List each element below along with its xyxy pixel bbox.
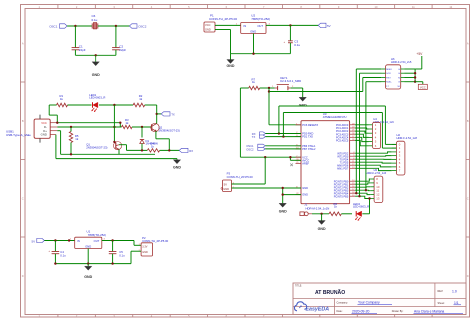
wire xyxy=(102,241,141,246)
wire PB bus to H3 xyxy=(355,179,370,199)
wire xyxy=(266,134,302,137)
node junction xyxy=(54,262,114,264)
svg-text:USB-Type-A_Male: USB-Type-A_Male xyxy=(6,133,31,137)
regulator U2 xyxy=(241,13,271,33)
svg-text:GND: GND xyxy=(302,193,308,197)
svg-text:CONN-TH_2P-P5.00: CONN-TH_2P-P5.00 xyxy=(227,175,254,179)
svg-text:OSC1: OSC1 xyxy=(49,24,58,28)
svg-text:Your Company: Your Company xyxy=(358,301,380,305)
wire xyxy=(157,113,162,115)
svg-text:D: D xyxy=(467,274,469,278)
svg-text:TX: TX xyxy=(252,135,256,139)
header H6 HDR-F-2.54_2x5 ISP xyxy=(381,57,412,89)
resistor R5 xyxy=(69,127,79,154)
capacitor C4 xyxy=(48,241,66,264)
node junction xyxy=(320,213,322,215)
svg-text:LED-0603_R: LED-0603_R xyxy=(89,96,105,100)
wire D+ row xyxy=(57,131,155,155)
wire ADC bus to H4 xyxy=(355,125,368,146)
ground xyxy=(92,55,100,77)
resistor R1 xyxy=(49,94,67,107)
wire xyxy=(75,26,116,48)
svg-text:7805(TO-252): 7805(TO-252) xyxy=(88,233,106,237)
node junction xyxy=(113,141,115,143)
svg-text:2020-09-20: 2020-09-20 xyxy=(352,310,369,314)
LED LED1 xyxy=(89,93,105,112)
node junction xyxy=(289,24,291,26)
svg-text:GND: GND xyxy=(41,133,47,137)
capacitor C6 xyxy=(92,14,98,29)
wire xyxy=(260,87,275,89)
node junction xyxy=(111,239,113,241)
svg-text:PC6 RESET#: PC6 RESET# xyxy=(302,123,318,127)
node junction xyxy=(141,126,143,128)
EasyEDA logo xyxy=(294,302,329,313)
svg-text:GND: GND xyxy=(279,209,287,213)
wire Q2 collector xyxy=(156,122,158,124)
svg-text:C: C xyxy=(467,196,469,200)
title text AT BRUNAO xyxy=(315,289,345,296)
svg-text:5V: 5V xyxy=(32,239,36,243)
svg-text:7805(TO-252): 7805(TO-252) xyxy=(251,17,270,21)
node junction xyxy=(278,132,285,138)
svg-text:GND: GND xyxy=(84,275,92,279)
wire MOSI xyxy=(366,82,381,191)
svg-text:AT BRUNÃO: AT BRUNÃO xyxy=(315,289,345,296)
transistor Q2 xyxy=(151,123,180,132)
ground xyxy=(318,214,326,231)
svg-text:0.1u: 0.1u xyxy=(294,43,300,47)
svg-text:MISO: MISO xyxy=(386,69,392,71)
wire VCC rail xyxy=(240,88,301,157)
wire RST to ISP xyxy=(269,78,363,92)
svg-text:GND: GND xyxy=(92,73,100,77)
capacitor C5 xyxy=(109,241,125,264)
wire Q2 emitter xyxy=(156,132,169,151)
wire xyxy=(215,30,231,54)
svg-text:GND: GND xyxy=(250,30,256,34)
svg-text:OSC2: OSC2 xyxy=(246,147,254,151)
header H4 HDR-F-2.54_1x6 xyxy=(369,117,395,149)
svg-text:+5V: +5V xyxy=(416,52,423,56)
wire reset net xyxy=(269,88,301,125)
wire xyxy=(44,239,74,241)
svg-text:OUT: OUT xyxy=(94,239,100,243)
header H2 HDR-F-2.54_1x8 xyxy=(392,133,418,175)
ground xyxy=(299,97,307,107)
title block xyxy=(293,283,466,315)
wire xyxy=(232,187,302,189)
LED LED2 xyxy=(353,202,369,221)
port OSC2 xyxy=(129,24,146,29)
header J1 HDR-M-2.54_1x1 xyxy=(300,203,329,216)
node junction xyxy=(70,153,72,155)
resistor R6 xyxy=(329,202,341,216)
svg-text:G: G xyxy=(398,69,400,71)
port 5V bottom xyxy=(32,238,45,243)
node junction xyxy=(70,104,116,128)
diode D1 xyxy=(140,127,158,150)
wire xyxy=(67,25,92,27)
port TX usb xyxy=(161,112,175,117)
wire D- row xyxy=(57,126,121,128)
svg-text:LED-0603_R: LED-0603_R xyxy=(353,205,369,209)
port OSC1 xyxy=(49,24,67,29)
svg-text:G: G xyxy=(398,82,400,84)
ground xyxy=(173,160,181,170)
svg-text:HDR-F-2.54_2x5: HDR-F-2.54_2x5 xyxy=(391,60,412,64)
svg-text:PCINT5 PB5: PCINT5 PB5 xyxy=(334,194,349,198)
wire RX row xyxy=(127,149,148,151)
svg-text:13: 13 xyxy=(376,197,380,201)
svg-text:Company:: Company: xyxy=(337,301,349,304)
IC U3 ATMEGA328P-PU xyxy=(296,112,356,204)
wire MISO xyxy=(356,69,381,193)
svg-text:0.1u: 0.1u xyxy=(119,254,125,258)
port RX usb xyxy=(179,148,193,153)
wire RXD over MCU xyxy=(279,106,397,144)
svg-text:VCC: VCC xyxy=(205,23,211,27)
svg-text:A: A xyxy=(22,41,24,45)
svg-text:Date:: Date: xyxy=(337,310,343,313)
svg-text:C: C xyxy=(22,196,24,200)
no-connect AREF xyxy=(290,164,293,167)
wire xyxy=(341,213,352,215)
svg-text:GND: GND xyxy=(223,187,229,191)
svg-text:RST: RST xyxy=(386,78,391,80)
svg-text:OUT: OUT xyxy=(257,24,263,28)
node junction xyxy=(56,122,121,124)
svg-text:2N3904(SOT-23): 2N3904(SOT-23) xyxy=(159,128,180,132)
svg-text:RX: RX xyxy=(189,149,193,153)
date row xyxy=(337,310,464,314)
svg-text:PB7 XTAL2: PB7 XTAL2 xyxy=(302,147,316,151)
svg-text:22pF: 22pF xyxy=(119,48,126,52)
switch KEY1 xyxy=(272,76,301,90)
rev label xyxy=(438,290,457,294)
wire xyxy=(98,25,130,27)
wire Q1 collector xyxy=(119,145,127,151)
wire xyxy=(312,213,329,215)
resistor R2 xyxy=(133,94,145,107)
ground xyxy=(84,264,92,279)
wire xyxy=(291,88,303,97)
svg-text:IN: IN xyxy=(244,24,247,28)
wire xyxy=(68,104,92,106)
svg-text:GND: GND xyxy=(85,244,91,248)
svg-text:VCC: VCC xyxy=(420,86,426,90)
svg-text:5V: 5V xyxy=(327,24,331,28)
wire xyxy=(231,34,291,54)
wire xyxy=(265,146,301,149)
svg-text:D: D xyxy=(22,274,24,278)
wire xyxy=(215,24,241,26)
resistor R4 xyxy=(147,142,159,153)
svg-text:GND: GND xyxy=(302,186,308,190)
wire xyxy=(75,50,116,56)
svg-text:HDR-M-2.54_1x1N: HDR-M-2.54_1x1N xyxy=(306,206,330,210)
svg-text:OSC2: OSC2 xyxy=(138,24,147,28)
connector USB1 xyxy=(6,115,57,143)
svg-text:AIN1 PD7: AIN1 PD7 xyxy=(337,166,349,170)
svg-text:PD1 TXD: PD1 TXD xyxy=(302,135,313,139)
svg-text:0.1u: 0.1u xyxy=(92,18,98,22)
svg-text:ATMEGA328P-PU: ATMEGA328P-PU xyxy=(323,115,347,119)
svg-text:Sheet:: Sheet: xyxy=(438,302,446,305)
wire SCK xyxy=(360,73,382,196)
node junction xyxy=(54,239,70,241)
svg-text:B: B xyxy=(467,119,469,123)
wire xyxy=(160,149,180,151)
wire xyxy=(55,251,141,263)
node junction xyxy=(368,197,370,199)
port TX xyxy=(252,135,266,139)
capacitor C2 xyxy=(112,45,126,52)
wire ISP vcc column xyxy=(405,69,416,82)
sheet label xyxy=(438,301,462,305)
capacitor C1 xyxy=(72,45,86,52)
wire xyxy=(362,199,369,214)
svg-text:GND: GND xyxy=(299,103,307,107)
node junction xyxy=(264,156,292,158)
svg-text:B: B xyxy=(22,119,24,123)
svg-text:Drawn By:: Drawn By: xyxy=(392,310,404,313)
node junction xyxy=(252,53,254,55)
svg-text:GND: GND xyxy=(142,251,148,254)
svg-text:GND: GND xyxy=(318,227,326,231)
connector P2 xyxy=(139,236,169,256)
capacitor C3 xyxy=(284,25,301,53)
port OSC2 at MCU xyxy=(246,147,265,151)
wire PD bus to H2 xyxy=(355,152,392,171)
svg-text:HDR-F-2.54_1x8: HDR-F-2.54_1x8 xyxy=(397,136,418,140)
svg-text:GND: GND xyxy=(205,27,211,31)
node junction xyxy=(282,187,284,196)
node junction xyxy=(414,72,416,83)
node junction xyxy=(74,25,117,27)
node junction xyxy=(141,149,143,151)
port OSC1 at MCU xyxy=(246,144,265,148)
wire xyxy=(232,157,266,184)
svg-text:NULL: NULL xyxy=(386,82,392,84)
svg-text:GND: GND xyxy=(227,64,235,68)
svg-text:TITLE:: TITLE: xyxy=(295,286,302,288)
node junction xyxy=(168,149,170,151)
svg-text:A: A xyxy=(467,41,469,45)
wire xyxy=(266,24,318,26)
resistor R7 xyxy=(240,77,259,89)
port 5V xyxy=(318,23,330,28)
svg-text:REV:: REV: xyxy=(438,290,444,293)
power VCC xyxy=(415,82,427,90)
wire xyxy=(132,126,152,128)
svg-text:AREF: AREF xyxy=(302,162,309,166)
wire VBUS xyxy=(49,105,120,127)
wire xyxy=(290,157,301,160)
company row xyxy=(337,301,393,305)
svg-text:0.1u: 0.1u xyxy=(60,254,66,258)
wire Q1 base column xyxy=(113,105,115,142)
wire xyxy=(99,104,133,106)
ground xyxy=(279,203,287,213)
node junction xyxy=(95,54,97,56)
connector P1 xyxy=(204,13,237,32)
svg-text:EasyEDA: EasyEDA xyxy=(306,307,330,313)
svg-text:SCK: SCK xyxy=(386,73,391,75)
wire RST stub xyxy=(363,77,381,79)
svg-text:22pF: 22pF xyxy=(79,48,86,52)
svg-text:TX: TX xyxy=(171,112,175,116)
svg-text:IN: IN xyxy=(77,239,80,243)
svg-text:2N3904(SOT-23): 2N3904(SOT-23) xyxy=(86,145,107,149)
port RX xyxy=(252,132,266,136)
node junction xyxy=(156,113,158,115)
power +5V xyxy=(415,52,423,69)
resistor R3 xyxy=(122,118,133,129)
svg-text:1.0: 1.0 xyxy=(452,290,457,294)
svg-text:PC5 ADC5: PC5 ADC5 xyxy=(336,139,349,143)
wire GND rail xyxy=(56,135,177,160)
wire xyxy=(283,188,301,203)
node junction xyxy=(268,90,270,92)
wire xyxy=(87,249,89,264)
svg-text:G: G xyxy=(398,73,400,75)
node junction xyxy=(268,87,270,89)
svg-text:3.3V: 3.3V xyxy=(142,245,147,248)
wire xyxy=(145,105,157,122)
wire TXD over MCU xyxy=(283,113,396,149)
wire Q1 emitter xyxy=(118,150,120,155)
ground xyxy=(227,54,235,68)
svg-text:Ana Clara e Mariana: Ana Clara e Mariana xyxy=(414,310,444,314)
svg-text:GND: GND xyxy=(173,166,181,170)
connector P3 xyxy=(221,172,253,192)
svg-text:RX: RX xyxy=(252,132,256,136)
transistor Q1 xyxy=(86,142,122,150)
regulator U1 xyxy=(75,229,106,248)
svg-text:CONN-TH_2P-P5.00: CONN-TH_2P-P5.00 xyxy=(209,17,237,21)
node junction xyxy=(355,189,367,197)
header H3 HDR-F-2.54_1x6 xyxy=(366,168,387,203)
svg-text:5V: 5V xyxy=(224,182,228,186)
svg-text:K2-3.6-6.1_SMD: K2-3.6-6.1_SMD xyxy=(280,79,301,83)
svg-text:HDR-F-2.54_1x6: HDR-F-2.54_1x6 xyxy=(366,171,387,175)
